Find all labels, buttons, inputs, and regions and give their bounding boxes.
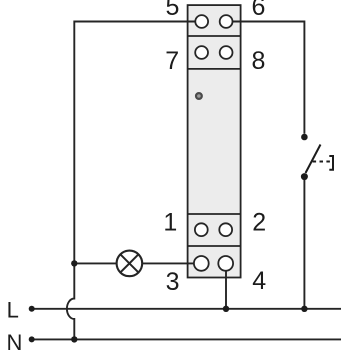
wire from lamp to terminal 3 bbox=[143, 262, 195, 264]
terminal 4 bbox=[218, 256, 233, 271]
svg-text:1: 1 bbox=[163, 209, 177, 237]
terminal 5 bbox=[195, 15, 208, 28]
LED indicator bbox=[196, 93, 202, 99]
label 5 bbox=[165, 0, 179, 21]
label N bbox=[7, 330, 23, 350]
svg-text:4: 4 bbox=[252, 267, 266, 295]
junction switch on L line bbox=[301, 306, 307, 312]
label 8 bbox=[252, 47, 266, 75]
label 6 bbox=[252, 0, 266, 21]
label 3 bbox=[166, 268, 180, 296]
wire from terminal 4 down to L line bbox=[225, 270, 227, 309]
N supply line bbox=[29, 336, 341, 342]
svg-text:5: 5 bbox=[165, 0, 179, 21]
terminal 6 bbox=[220, 15, 233, 28]
label L bbox=[7, 297, 19, 322]
svg-text:7: 7 bbox=[165, 47, 179, 75]
module divider above terminals 1-2 bbox=[188, 213, 241, 215]
svg-text:L: L bbox=[7, 297, 19, 322]
svg-text:8: 8 bbox=[252, 47, 266, 75]
module divider above terminals 3-4 bbox=[188, 245, 241, 247]
label 2 bbox=[252, 209, 266, 237]
svg-text:N: N bbox=[7, 330, 23, 350]
terminal 2 bbox=[219, 223, 232, 236]
svg-text:6: 6 bbox=[252, 0, 266, 21]
svg-text:2: 2 bbox=[252, 209, 266, 237]
terminal 3 bbox=[194, 256, 209, 271]
module divider below terminals 7-8 bbox=[188, 68, 241, 70]
wire from junction to lamp bbox=[74, 262, 116, 264]
label 1 bbox=[163, 209, 177, 237]
junction on N line bbox=[71, 336, 77, 342]
terminal 8 bbox=[220, 46, 233, 59]
junction lamp branch bbox=[71, 260, 77, 266]
lamp bbox=[117, 251, 143, 277]
terminal 7 bbox=[195, 46, 208, 59]
label 7 bbox=[165, 47, 179, 75]
module divider below terminals 5-6 bbox=[188, 35, 241, 37]
relay module body bbox=[188, 5, 241, 277]
svg-text:3: 3 bbox=[166, 268, 180, 296]
junction terminal 4 on L line bbox=[223, 306, 229, 312]
wire from switch down to L line bbox=[303, 177, 305, 309]
wire from terminal 5 left and down to N bbox=[67, 22, 195, 340]
wire from terminal 6 right and down to switch bbox=[233, 22, 305, 134]
L supply line bbox=[29, 306, 341, 312]
switch S1 bbox=[301, 134, 333, 180]
terminal 1 bbox=[195, 223, 208, 236]
label 4 bbox=[252, 267, 266, 295]
